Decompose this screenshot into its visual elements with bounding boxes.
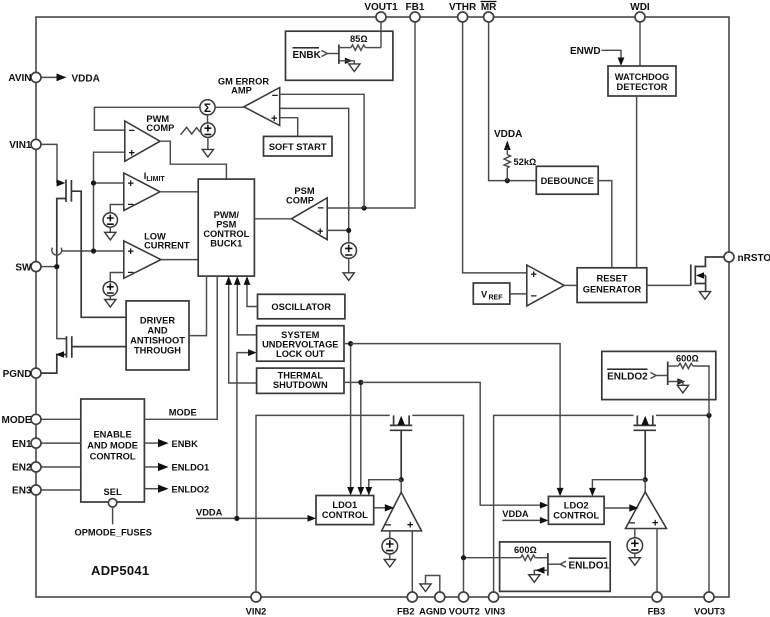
pin PGND xyxy=(3,368,41,380)
node ENWD xyxy=(570,46,624,66)
svg-text:FB3: FB3 xyxy=(648,607,666,617)
svg-text:ENLDO1: ENLDO1 xyxy=(569,561,610,572)
svg-text:SYSTEM: SYSTEM xyxy=(281,330,319,340)
ground symbol at AGND pin xyxy=(420,576,440,593)
wire low current output to control box xyxy=(161,259,198,261)
transistor Q8 ENLDO2 discharge xyxy=(667,362,669,386)
ground in ENLDO1 box xyxy=(529,575,540,583)
svg-text:AVIN: AVIN xyxy=(8,73,31,84)
sawtooth ramp symbol xyxy=(181,127,201,135)
ground in ENBK box xyxy=(349,64,360,72)
ground below low current source xyxy=(105,300,116,308)
wire debounce to reset generator xyxy=(598,181,612,268)
op-amp LDO1 error amp xyxy=(382,492,422,531)
arrowhead gate branch into LDO1 control xyxy=(365,487,372,496)
arrowhead control to amp xyxy=(385,504,394,511)
svg-text:THROUGH: THROUGH xyxy=(134,346,181,356)
block oscillator xyxy=(258,294,345,319)
wire MR to debounce xyxy=(489,22,537,181)
svg-text:−: − xyxy=(128,267,134,279)
svg-text:AMP: AMP xyxy=(231,86,252,96)
ground below ramp source xyxy=(202,149,213,157)
svg-text:52kΩ: 52kΩ xyxy=(514,157,537,167)
debounce block xyxy=(536,166,598,194)
svg-text:SEL: SEL xyxy=(104,487,122,497)
svg-text:FB2: FB2 xyxy=(397,607,415,617)
svg-text:OSCILLATOR: OSCILLATOR xyxy=(271,302,331,312)
wire transistor drain to resistor xyxy=(339,47,351,49)
svg-text:VOUT2: VOUT2 xyxy=(449,607,480,617)
ground below LDO1 reference xyxy=(384,559,395,567)
pin EN3 xyxy=(12,485,41,497)
svg-text:PSM: PSM xyxy=(216,220,236,230)
junction PSM + xyxy=(346,228,351,233)
chevron ENBK input xyxy=(322,51,328,57)
block driver and antishoot through xyxy=(126,301,189,370)
svg-text:ENLDO2: ENLDO2 xyxy=(607,372,648,383)
wire VDDA to LDO2 control xyxy=(502,519,540,521)
signal ENLDO1 output xyxy=(144,463,209,473)
svg-text:FB1: FB1 xyxy=(406,2,425,13)
current source LDO1 reference xyxy=(382,538,398,554)
svg-text:EN2: EN2 xyxy=(12,463,32,474)
svg-text:VIN1: VIN1 xyxy=(9,140,32,151)
svg-text:OPMODE_FUSES: OPMODE_FUSES xyxy=(75,528,153,538)
junction LDO1 gate node xyxy=(399,477,404,482)
wire amp + to FB3 pin xyxy=(656,529,658,593)
wire thermal shutdown to control box xyxy=(229,284,257,384)
svg-text:−: − xyxy=(318,203,324,215)
junction LDO2 gate node xyxy=(643,477,648,482)
svg-text:85Ω: 85Ω xyxy=(350,34,367,44)
svg-text:−: − xyxy=(128,199,134,211)
wire ILIMIT output to control box xyxy=(160,191,198,193)
svg-text:UNDERVOLTAGE: UNDERVOLTAGE xyxy=(262,340,338,350)
op-amp U1 GM error amp xyxy=(244,88,280,126)
block LDO2 control xyxy=(548,496,604,524)
block VREF xyxy=(473,283,510,304)
wire EN2 to block xyxy=(41,466,81,468)
svg-text:VTHR: VTHR xyxy=(449,2,477,13)
wire VTHR to reset comparator + xyxy=(463,22,527,273)
wire resistor to VOUT1 line xyxy=(365,47,381,49)
block enable and mode control xyxy=(81,399,145,502)
arrowhead thermal into LDO2 control xyxy=(540,502,549,509)
wire GM mid output sense to PSM + node xyxy=(280,108,349,230)
sense loop around SW wire xyxy=(52,248,62,256)
wire VDDA rail into UVLO xyxy=(237,353,249,519)
block ENLDO2 pulldown cell xyxy=(602,351,716,399)
wire reset generator to transistor gate xyxy=(647,284,691,286)
op-amp PWM comparator xyxy=(125,121,160,161)
svg-text:SW: SW xyxy=(15,262,32,273)
svg-text:PSM: PSM xyxy=(294,186,314,196)
svg-text:VDDA: VDDA xyxy=(502,509,529,519)
wire ILIMIT - to offset source xyxy=(110,205,124,213)
ground below ILIMIT source xyxy=(105,232,116,240)
pin FB2 xyxy=(397,592,417,617)
block ENLDO1 pulldown cell xyxy=(500,542,611,592)
pin MR (active low) xyxy=(481,2,498,23)
summer node sigma xyxy=(200,100,215,115)
svg-text:−: − xyxy=(629,517,635,529)
svg-text:SOFT START: SOFT START xyxy=(269,142,327,152)
wire gate node to amp output xyxy=(400,480,402,493)
transistor Q3 nRSTO open-drain xyxy=(691,257,724,292)
svg-text:DRIVER: DRIVER xyxy=(140,316,175,326)
wire VDDA to LDO1 control xyxy=(196,517,308,519)
svg-text:COMP: COMP xyxy=(146,123,174,133)
arrowhead into Q1 xyxy=(57,180,66,187)
wire WDI to watchdog detector xyxy=(639,22,641,66)
wire watchdog to reset generator xyxy=(636,96,638,268)
signal ENLDO1 (active low) xyxy=(569,558,610,571)
reset generator block xyxy=(577,268,647,303)
svg-text:LOCK OUT: LOCK OUT xyxy=(276,349,325,359)
svg-text:ADP5041: ADP5041 xyxy=(91,563,149,578)
signal ENBK output xyxy=(144,439,198,449)
wire low current + from SW sense loop xyxy=(61,250,124,252)
current source LDO2 reference xyxy=(627,538,643,554)
arrowhead thermal to control xyxy=(225,276,232,285)
arrowhead VDDA up xyxy=(504,141,511,151)
pin nRSTO xyxy=(724,252,770,264)
svg-text:+: + xyxy=(407,520,413,532)
svg-text:LDO1: LDO1 xyxy=(332,500,357,510)
wire Q8 source to ground xyxy=(668,382,683,386)
op-amp LDO2 error amp xyxy=(626,492,667,529)
arrowhead into watchdog top xyxy=(618,58,625,67)
svg-text:SHUTDOWN: SHUTDOWN xyxy=(273,380,328,390)
op-amp ILIMIT comparator xyxy=(124,173,160,211)
svg-text:VDDA: VDDA xyxy=(494,129,522,140)
arrowhead VDDA into LDO2 control xyxy=(540,517,549,524)
pin EN2 xyxy=(12,462,41,474)
svg-text:AGND: AGND xyxy=(419,607,447,617)
label PWM COMP xyxy=(146,114,174,133)
wire gate node branch to LDO2 control xyxy=(592,480,645,489)
chevron ENLDO2 input xyxy=(650,373,656,379)
svg-text:600Ω: 600Ω xyxy=(676,354,699,364)
wire GM inverting input from FB1 node xyxy=(280,94,364,208)
svg-text:COMP: COMP xyxy=(286,196,314,206)
arrowhead Q6 body xyxy=(536,567,545,574)
arrowhead UVLO to control xyxy=(234,276,241,285)
wire VOUT2 feedback into ENLDO1 box xyxy=(464,557,521,559)
wire PWM comp output to control box xyxy=(160,141,226,179)
wire SW pin stub xyxy=(41,266,57,268)
svg-text:ANTISHOOT: ANTISHOOT xyxy=(130,336,185,346)
resistor 600 ohm LDO1 xyxy=(521,555,536,560)
svg-text:MR: MR xyxy=(481,2,497,13)
arrowhead UVLO into LDO1 control xyxy=(347,487,354,496)
wire comparator to reset generator xyxy=(564,284,577,286)
arrowhead control to amp xyxy=(629,504,638,511)
arrowhead Q7 channel xyxy=(642,416,649,425)
svg-text:+: + xyxy=(128,178,134,190)
svg-text:nRSTO: nRSTO xyxy=(738,253,770,264)
pin VIN1 xyxy=(9,139,41,151)
pin AGND xyxy=(419,592,447,617)
current source PSM offset xyxy=(341,243,357,259)
svg-text:+: + xyxy=(271,113,277,125)
svg-text:VDDA: VDDA xyxy=(72,73,100,84)
wire amp - to reference source xyxy=(634,529,636,538)
op-amp PSM comparator xyxy=(291,198,327,240)
svg-text:ENABLE: ENABLE xyxy=(93,430,131,440)
block LDO1 control xyxy=(316,496,374,525)
svg-text:CONTROL: CONTROL xyxy=(90,452,136,462)
transistor Q7 LDO2 pass device xyxy=(634,415,657,479)
arrowhead Q3 body diode xyxy=(696,272,704,279)
svg-text:VDDA: VDDA xyxy=(196,507,223,517)
wire Q8 drain to resistor xyxy=(668,365,679,367)
svg-text:+: + xyxy=(128,246,134,258)
wire Q6 source to ground xyxy=(534,570,548,574)
wire source to ground xyxy=(109,227,111,232)
wire rail FET to VOUT3 junction and pin xyxy=(656,415,709,592)
wire PSM output to control box xyxy=(254,218,291,220)
current source low current threshold xyxy=(103,282,117,296)
watchdog detector block xyxy=(608,66,676,96)
svg-text:−: − xyxy=(531,291,537,303)
svg-text:CURRENT: CURRENT xyxy=(144,241,190,251)
svg-text:BUCK1: BUCK1 xyxy=(210,239,242,249)
label LOW CURRENT xyxy=(144,232,190,251)
wire Q4 source to ground xyxy=(339,61,354,64)
arrowhead UVLO into LDO2 control xyxy=(557,488,564,497)
wire amp + to FB2 pin xyxy=(411,531,413,592)
junction VDDA xyxy=(234,516,239,521)
svg-text:WATCHDOG: WATCHDOG xyxy=(615,72,670,82)
arrowhead oscillator to control xyxy=(244,276,251,285)
wire gate node to amp output xyxy=(644,480,646,492)
wire Q6 gate chevron xyxy=(548,563,561,565)
ground in ENLDO2 box xyxy=(677,385,688,393)
wire source to ground xyxy=(109,296,111,300)
pin VIN2 xyxy=(246,592,267,617)
wire UVLO branch to LDO1 control xyxy=(344,344,351,488)
pin WDI xyxy=(630,2,650,22)
signal ENBK (active low) xyxy=(293,48,322,61)
wire VOUT1 into ENBK pulldown box xyxy=(380,22,382,48)
chevron ENLDO1 input xyxy=(560,561,566,567)
wire EN1 to block xyxy=(41,442,81,444)
arrowhead VDDA into UVLO xyxy=(248,349,257,356)
svg-text:+: + xyxy=(652,517,658,529)
op-amp reset comparator xyxy=(527,265,564,306)
wire ENBK to transistor gate xyxy=(327,53,339,55)
wire source to ground xyxy=(634,553,636,557)
pin VOUT1 xyxy=(364,2,398,22)
svg-text:ENWD: ENWD xyxy=(570,46,601,57)
svg-text:VOUT3: VOUT3 xyxy=(694,607,725,617)
wire PSM + node to offset source xyxy=(327,230,349,242)
signal ENLDO2 output xyxy=(144,484,209,494)
junction FB1/GM error amp inverting node xyxy=(362,205,367,210)
svg-text:MODE: MODE xyxy=(169,408,197,418)
svg-text:AND: AND xyxy=(147,326,167,336)
block thermal shutdown xyxy=(257,368,344,393)
current source ramp offset xyxy=(201,123,215,137)
wire resistor to VOUT3 line xyxy=(693,366,709,415)
svg-text:VIN3: VIN3 xyxy=(484,607,505,617)
svg-text:REF: REF xyxy=(489,295,504,302)
wire source to ground xyxy=(389,554,391,559)
svg-text:PGND: PGND xyxy=(3,369,32,380)
wire LDO1 control output to amp xyxy=(374,507,385,509)
pin VTHR xyxy=(449,2,477,22)
wire ramp source to ground xyxy=(207,137,209,149)
arrowhead gate branch into LDO2 control xyxy=(589,488,596,497)
svg-text:RESET: RESET xyxy=(597,274,628,284)
wire source to ground xyxy=(348,258,350,272)
svg-text:ENBK: ENBK xyxy=(172,439,199,449)
wire chevron to Q8 gate xyxy=(656,375,668,377)
wire GM + input from soft start xyxy=(280,118,298,137)
svg-text:+: + xyxy=(317,226,323,238)
wire oscillator to control box xyxy=(247,284,258,307)
wire LDO2 control output to amp xyxy=(604,507,629,509)
transistor Q5 LDO1 pass device xyxy=(390,415,413,479)
svg-text:DEBOUNCE: DEBOUNCE xyxy=(541,176,594,186)
svg-text:ENLDO1: ENLDO1 xyxy=(172,463,210,473)
svg-text:600Ω: 600Ω xyxy=(514,545,537,555)
wire FB1 down to PSM comparator input xyxy=(327,22,415,208)
svg-text:GENERATOR: GENERATOR xyxy=(583,285,642,295)
pin FB1 xyxy=(406,2,425,22)
junction MR/52k node xyxy=(505,178,510,183)
wire low current - to offset source xyxy=(110,273,124,282)
ground below Q3 xyxy=(699,292,710,300)
svg-text:DETECTOR: DETECTOR xyxy=(617,82,668,92)
current source ILIMIT threshold xyxy=(103,213,117,227)
svg-text:WDI: WDI xyxy=(630,2,650,13)
svg-text:V: V xyxy=(481,290,488,300)
pin FB3 xyxy=(648,592,666,617)
pin VOUT3 xyxy=(694,592,725,617)
svg-text:CONTROL: CONTROL xyxy=(203,229,249,239)
arrowhead thermal into LDO1 control xyxy=(357,487,364,496)
svg-text:EN3: EN3 xyxy=(12,486,32,497)
resistor 85 ohm xyxy=(351,45,366,50)
wire UVLO line continues to LDO2 xyxy=(351,344,560,489)
arrowhead VDDA into LDO1 control xyxy=(308,515,317,522)
node SEL fuse input xyxy=(108,499,116,525)
junction sense/ILIMIT xyxy=(91,180,96,185)
wire SW node to low side FET xyxy=(57,267,67,339)
transistor Q4 ENBK discharge xyxy=(338,45,340,64)
svg-text:ENLDO2: ENLDO2 xyxy=(172,484,210,494)
label GM ERROR AMP xyxy=(218,77,269,96)
transistor Q2 buck low-side xyxy=(41,336,126,373)
svg-text:−: − xyxy=(129,125,135,137)
svg-text:EN1: EN1 xyxy=(12,439,32,450)
wire resistor to MR node xyxy=(506,168,508,181)
svg-text:−: − xyxy=(272,90,278,102)
junction thermal output xyxy=(358,380,363,385)
wire VIN1 to high side FET xyxy=(41,144,57,183)
ground below PSM source xyxy=(343,273,354,281)
svg-text:Σ: Σ xyxy=(204,101,211,115)
junction UVLO output xyxy=(348,341,353,346)
pin VIN3 xyxy=(484,592,505,617)
wire ILIMIT + input xyxy=(94,182,124,184)
label PSM COMP xyxy=(286,186,315,206)
wire UVLO to control box xyxy=(237,284,256,335)
arrowhead VDDA xyxy=(57,74,67,82)
svg-text:+: + xyxy=(129,148,135,160)
arrowhead Q5 channel xyxy=(398,416,405,425)
block SOFT START xyxy=(264,136,333,156)
wire VREF to comparator - xyxy=(510,293,527,295)
block system undervoltage lockout xyxy=(257,326,344,362)
svg-text:+: + xyxy=(531,269,537,281)
wire driver to control box xyxy=(189,276,207,336)
wire sigma to ramp source xyxy=(207,115,209,123)
transistor Q1 buck high-side xyxy=(57,180,126,318)
wire amp - to reference source xyxy=(389,531,391,538)
pin VOUT2 xyxy=(449,592,480,617)
svg-text:MODE: MODE xyxy=(2,415,32,426)
wire PWM comp + from sense line xyxy=(94,152,125,251)
svg-text:VOUT1: VOUT1 xyxy=(364,2,398,13)
svg-text:LDO2: LDO2 xyxy=(564,501,589,511)
wire resistor to Q6 xyxy=(535,557,548,559)
pin EN1 xyxy=(12,438,41,450)
resistor 600 ohm LDO2 xyxy=(678,363,693,368)
wire EN3 to block xyxy=(41,489,81,491)
arrowhead Q8 source xyxy=(677,378,685,385)
wire sigma to PWM comp inverting input xyxy=(94,107,199,130)
arrowhead Q2 body xyxy=(56,351,64,358)
wire rail FET to VOUT2 pin xyxy=(412,415,463,592)
wire MODE pin to block xyxy=(41,418,81,420)
pin AVIN xyxy=(8,72,41,84)
signal ENLDO2 (active low) xyxy=(607,369,648,382)
wire AVIN to VDDA arrow xyxy=(41,76,58,78)
block PWM/PSM control buck1 xyxy=(198,179,254,276)
svg-text:AND MODE: AND MODE xyxy=(87,441,138,451)
block ENBK pulldown cell xyxy=(286,31,393,80)
transistor Q6 ENLDO1 discharge xyxy=(547,553,549,576)
svg-text:PWM/: PWM/ xyxy=(214,210,240,220)
svg-text:VIN2: VIN2 xyxy=(246,607,267,617)
resistor 52k ohm xyxy=(504,155,510,169)
junction sense/low current xyxy=(91,248,96,253)
wire thermal line continues to LDO2 xyxy=(361,382,541,505)
pin SW xyxy=(15,262,41,274)
ground below LDO2 reference xyxy=(629,558,640,566)
wire sigma to GM amp xyxy=(215,106,244,108)
svg-text:−: − xyxy=(385,520,391,532)
junction SW xyxy=(54,264,59,269)
wire gate node branch to LDO1 control xyxy=(369,480,401,488)
wire MODE output to control box xyxy=(144,276,217,419)
wire thermal branch to LDO1 control xyxy=(344,382,361,487)
svg-text:THERMAL: THERMAL xyxy=(278,371,324,381)
junction VOUT2 feedback xyxy=(461,555,466,560)
wire VIN2 up to LDO1 pass FET rail xyxy=(256,415,390,592)
junction VOUT3 xyxy=(706,413,711,418)
svg-text:ENBK: ENBK xyxy=(293,50,322,61)
svg-text:CONTROL: CONTROL xyxy=(553,511,599,521)
wire VIN3 up to LDO2 pass FET rail xyxy=(494,415,634,592)
svg-text:CONTROL: CONTROL xyxy=(322,510,368,520)
arrowhead Q4 source xyxy=(345,58,353,64)
op-amp low current comparator xyxy=(124,241,161,279)
pin MODE xyxy=(2,414,42,426)
